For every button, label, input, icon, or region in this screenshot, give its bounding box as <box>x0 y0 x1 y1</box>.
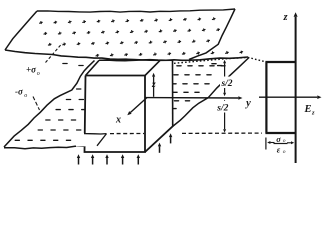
sigma0/eps0 dimension arrows <box>270 142 274 144</box>
svg-text:E: E <box>304 104 312 115</box>
gaussian box white fill <box>86 60 173 152</box>
plates common wavy boundary line <box>5 50 248 60</box>
svg-text:ε: ε <box>277 144 281 154</box>
svg-text:o: o <box>37 71 40 77</box>
bottom plate torn right edge <box>173 58 250 127</box>
gaussian box front face edges <box>85 76 146 153</box>
svg-text:s/2: s/2 <box>220 79 232 89</box>
bottom plate torn left edge <box>4 61 95 148</box>
x axis arrow <box>130 98 147 113</box>
svg-text:y: y <box>244 98 251 109</box>
lower s/2 label <box>216 101 230 113</box>
svg-text:z: z <box>282 12 288 23</box>
minus charge marks on bottom plate, right part <box>172 64 225 109</box>
field arrows below bottom-right slant <box>159 146 161 152</box>
gaussian box back-top edge along plate line <box>99 59 173 62</box>
bottom plate front edge <box>4 146 97 149</box>
svg-text:o: o <box>283 149 286 155</box>
svg-text:z: z <box>311 110 315 117</box>
y axis arrow <box>145 97 238 99</box>
minus charge marks on bottom plate, left part <box>15 64 86 141</box>
svg-text:x: x <box>115 115 121 126</box>
svg-text:+σ: +σ <box>26 65 37 75</box>
plus charge marks on top plate <box>40 18 243 57</box>
E_z graph step rectangle <box>265 62 296 133</box>
field arrows below box bottom <box>78 158 80 165</box>
sigma0/eps0 width dimension left tick <box>265 138 267 150</box>
mini z axis arrow on box <box>153 77 155 97</box>
gaussian box bottom-right slant edge <box>145 126 173 152</box>
-sigma_0 pointer line <box>33 97 40 111</box>
top plate outline (+sigma sheet) <box>37 9 235 12</box>
gaussian box back-right vertical edge <box>172 60 174 126</box>
svg-text:z: z <box>151 80 156 90</box>
dashed level line (bottom plate surface level) through box <box>110 133 144 135</box>
z axis of graph <box>295 17 297 163</box>
upper s/2 dimension arrow <box>224 63 226 78</box>
gaussian box top-left slant edge <box>86 60 100 75</box>
svg-text:-σ: -σ <box>15 87 24 97</box>
gaussian box top-right slant edge <box>145 60 160 75</box>
svg-text:s/2: s/2 <box>216 104 228 114</box>
lower s/2 dimension arrow <box>224 103 226 114</box>
dashed level line to graph <box>182 132 262 134</box>
+sigma_0 pointer dashed line <box>46 44 63 63</box>
svg-text:σ: σ <box>276 134 281 144</box>
svg-text:o: o <box>24 93 27 99</box>
dotted level line top plate to graph <box>174 57 264 63</box>
E_z horizontal axis <box>259 96 317 98</box>
upper s/2 label <box>220 77 234 89</box>
plate front torn flap over box <box>76 133 107 147</box>
